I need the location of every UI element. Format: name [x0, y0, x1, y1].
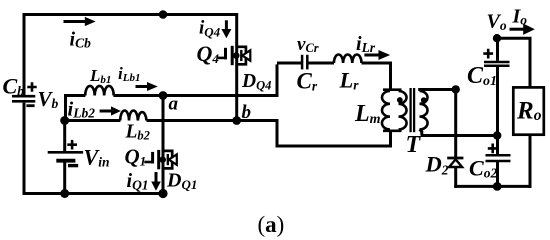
svg-text:iQ1: iQ1: [127, 170, 149, 193]
arrow iLb2: [100, 110, 113, 113]
wire bottom bus left: [23, 192, 165, 195]
transformer primary winding: [399, 91, 407, 130]
wire Co1 column: [496, 36, 499, 61]
transformer T bottom bar: [383, 130, 402, 133]
arrow iCb: [64, 20, 87, 23]
Q4 gate lead: [218, 57, 225, 60]
transformer secondary dot: [421, 97, 427, 103]
wire node-a horizontal: [66, 96, 86, 121]
arrow iQ1: [155, 172, 158, 183]
Q1 body diode triangle: [169, 154, 177, 164]
Q4 gate bar: [224, 48, 227, 60]
svg-text:D2: D2: [425, 152, 449, 178]
arrow iLr: [364, 54, 381, 57]
current arrows: [64, 17, 535, 191]
inductor Lb1: [85, 86, 114, 96]
svg-text:iCb: iCb: [70, 29, 92, 51]
Cb plus: [27, 82, 36, 91]
Q1 body diode bar: [167, 154, 169, 165]
inductor Lb2: [120, 111, 146, 121]
wire top bus: [23, 13, 239, 16]
capacitor Cr: [302, 55, 307, 70]
svg-text:Lm: Lm: [354, 101, 381, 127]
svg-text:DQ4: DQ4: [241, 71, 271, 93]
node Q1-bus junction: [158, 189, 167, 198]
svg-text:iLb1: iLb1: [118, 64, 140, 84]
transformer primary dot: [397, 97, 403, 103]
svg-text:(a): (a): [258, 212, 285, 237]
svg-text:Io: Io: [512, 5, 528, 27]
wire secondary bottom to Co midpoint: [420, 129, 498, 135]
svg-text:iLr: iLr: [356, 33, 376, 55]
arrow iQ4: [225, 20, 228, 30]
node a: [159, 91, 168, 100]
mosfet Q4: [218, 46, 251, 65]
Q1 channel bar: [157, 150, 160, 169]
svg-text:Cr: Cr: [297, 69, 318, 94]
svg-text:iLb2: iLb2: [68, 99, 96, 121]
svg-text:Lb1: Lb1: [89, 66, 111, 86]
arrow Io: [510, 28, 525, 31]
wire Q1 column: [162, 95, 165, 195]
node Vo: [493, 34, 501, 42]
diode D2 triangle: [449, 159, 462, 167]
inductor Lm winding: [382, 91, 390, 130]
Vin minus: [68, 164, 78, 167]
Q4 loop: [237, 47, 246, 65]
svg-text:T: T: [406, 132, 422, 158]
svg-text:b: b: [242, 102, 252, 123]
svg-text:Q4: Q4: [197, 41, 220, 66]
svg-text:iQ4: iQ4: [199, 18, 221, 40]
svg-text:Cb: Cb: [3, 74, 25, 99]
svg-text:Vin: Vin: [84, 145, 110, 170]
svg-text:Vb: Vb: [38, 87, 59, 111]
svg-text:a: a: [169, 94, 179, 115]
Q4 body diode bar: [240, 50, 242, 61]
wire Vo node to Ro: [498, 38, 531, 87]
wire Ro bottom lead: [529, 135, 532, 188]
Vin plus: [67, 140, 77, 150]
inductor Lr: [334, 54, 362, 63]
capacitor Co2: [486, 155, 511, 161]
Q1 loop: [163, 151, 172, 169]
mosfet Q1: [144, 150, 177, 169]
svg-text:DQ1: DQ1: [166, 170, 197, 193]
wire left rail upper: [23, 13, 26, 95]
svg-text:Ro: Ro: [516, 98, 542, 125]
wire battery column: [63, 118, 66, 151]
svg-text:Lb2: Lb2: [125, 122, 150, 143]
svg-text:Vo: Vo: [487, 11, 507, 34]
transformer secondary winding: [420, 91, 428, 130]
capacitor Cb: [12, 96, 35, 101]
wire secondary top: [418, 88, 456, 91]
Q4 body diode triangle: [242, 50, 250, 60]
Co1 plus: [483, 49, 493, 59]
plus minus signs: [26, 49, 497, 166]
transformer T top bar: [383, 88, 402, 91]
capacitor Co1: [484, 62, 510, 66]
resistor Ro box: [513, 87, 544, 134]
node bottom-right junction: [493, 182, 502, 191]
wire D2 column: [454, 88, 457, 157]
Q4 source dot: [233, 52, 240, 59]
node b: [232, 116, 241, 125]
Cb minus: [26, 104, 34, 107]
node top junction: [159, 10, 168, 19]
battery Vin: [48, 151, 83, 154]
node battery-bus junction: [60, 189, 69, 198]
svg-text:Lr: Lr: [339, 68, 360, 93]
Co2 plus: [488, 144, 498, 154]
wire Q4 column: [235, 13, 238, 120]
svg-text:vCr: vCr: [297, 34, 319, 55]
node secondary-D2 junction: [452, 85, 460, 93]
node Co midpoint: [493, 131, 501, 139]
wire bottom bus right: [454, 185, 531, 188]
Q1 gate lead: [144, 161, 151, 164]
svg-text:Co2: Co2: [469, 156, 497, 181]
Q4 channel bar: [231, 46, 234, 65]
wire Cr-Lr branch: [277, 62, 301, 65]
transformer core: [411, 88, 415, 132]
svg-text:Q1: Q1: [125, 145, 147, 169]
node input junction: [60, 116, 69, 125]
wire node-b horizontal: [63, 119, 120, 122]
Q1 gate bar: [151, 152, 154, 164]
wire left rail lower: [23, 103, 26, 195]
arrow iLb1: [136, 85, 149, 88]
Q1 source dot: [159, 156, 166, 163]
diode D2 bar: [447, 157, 463, 160]
